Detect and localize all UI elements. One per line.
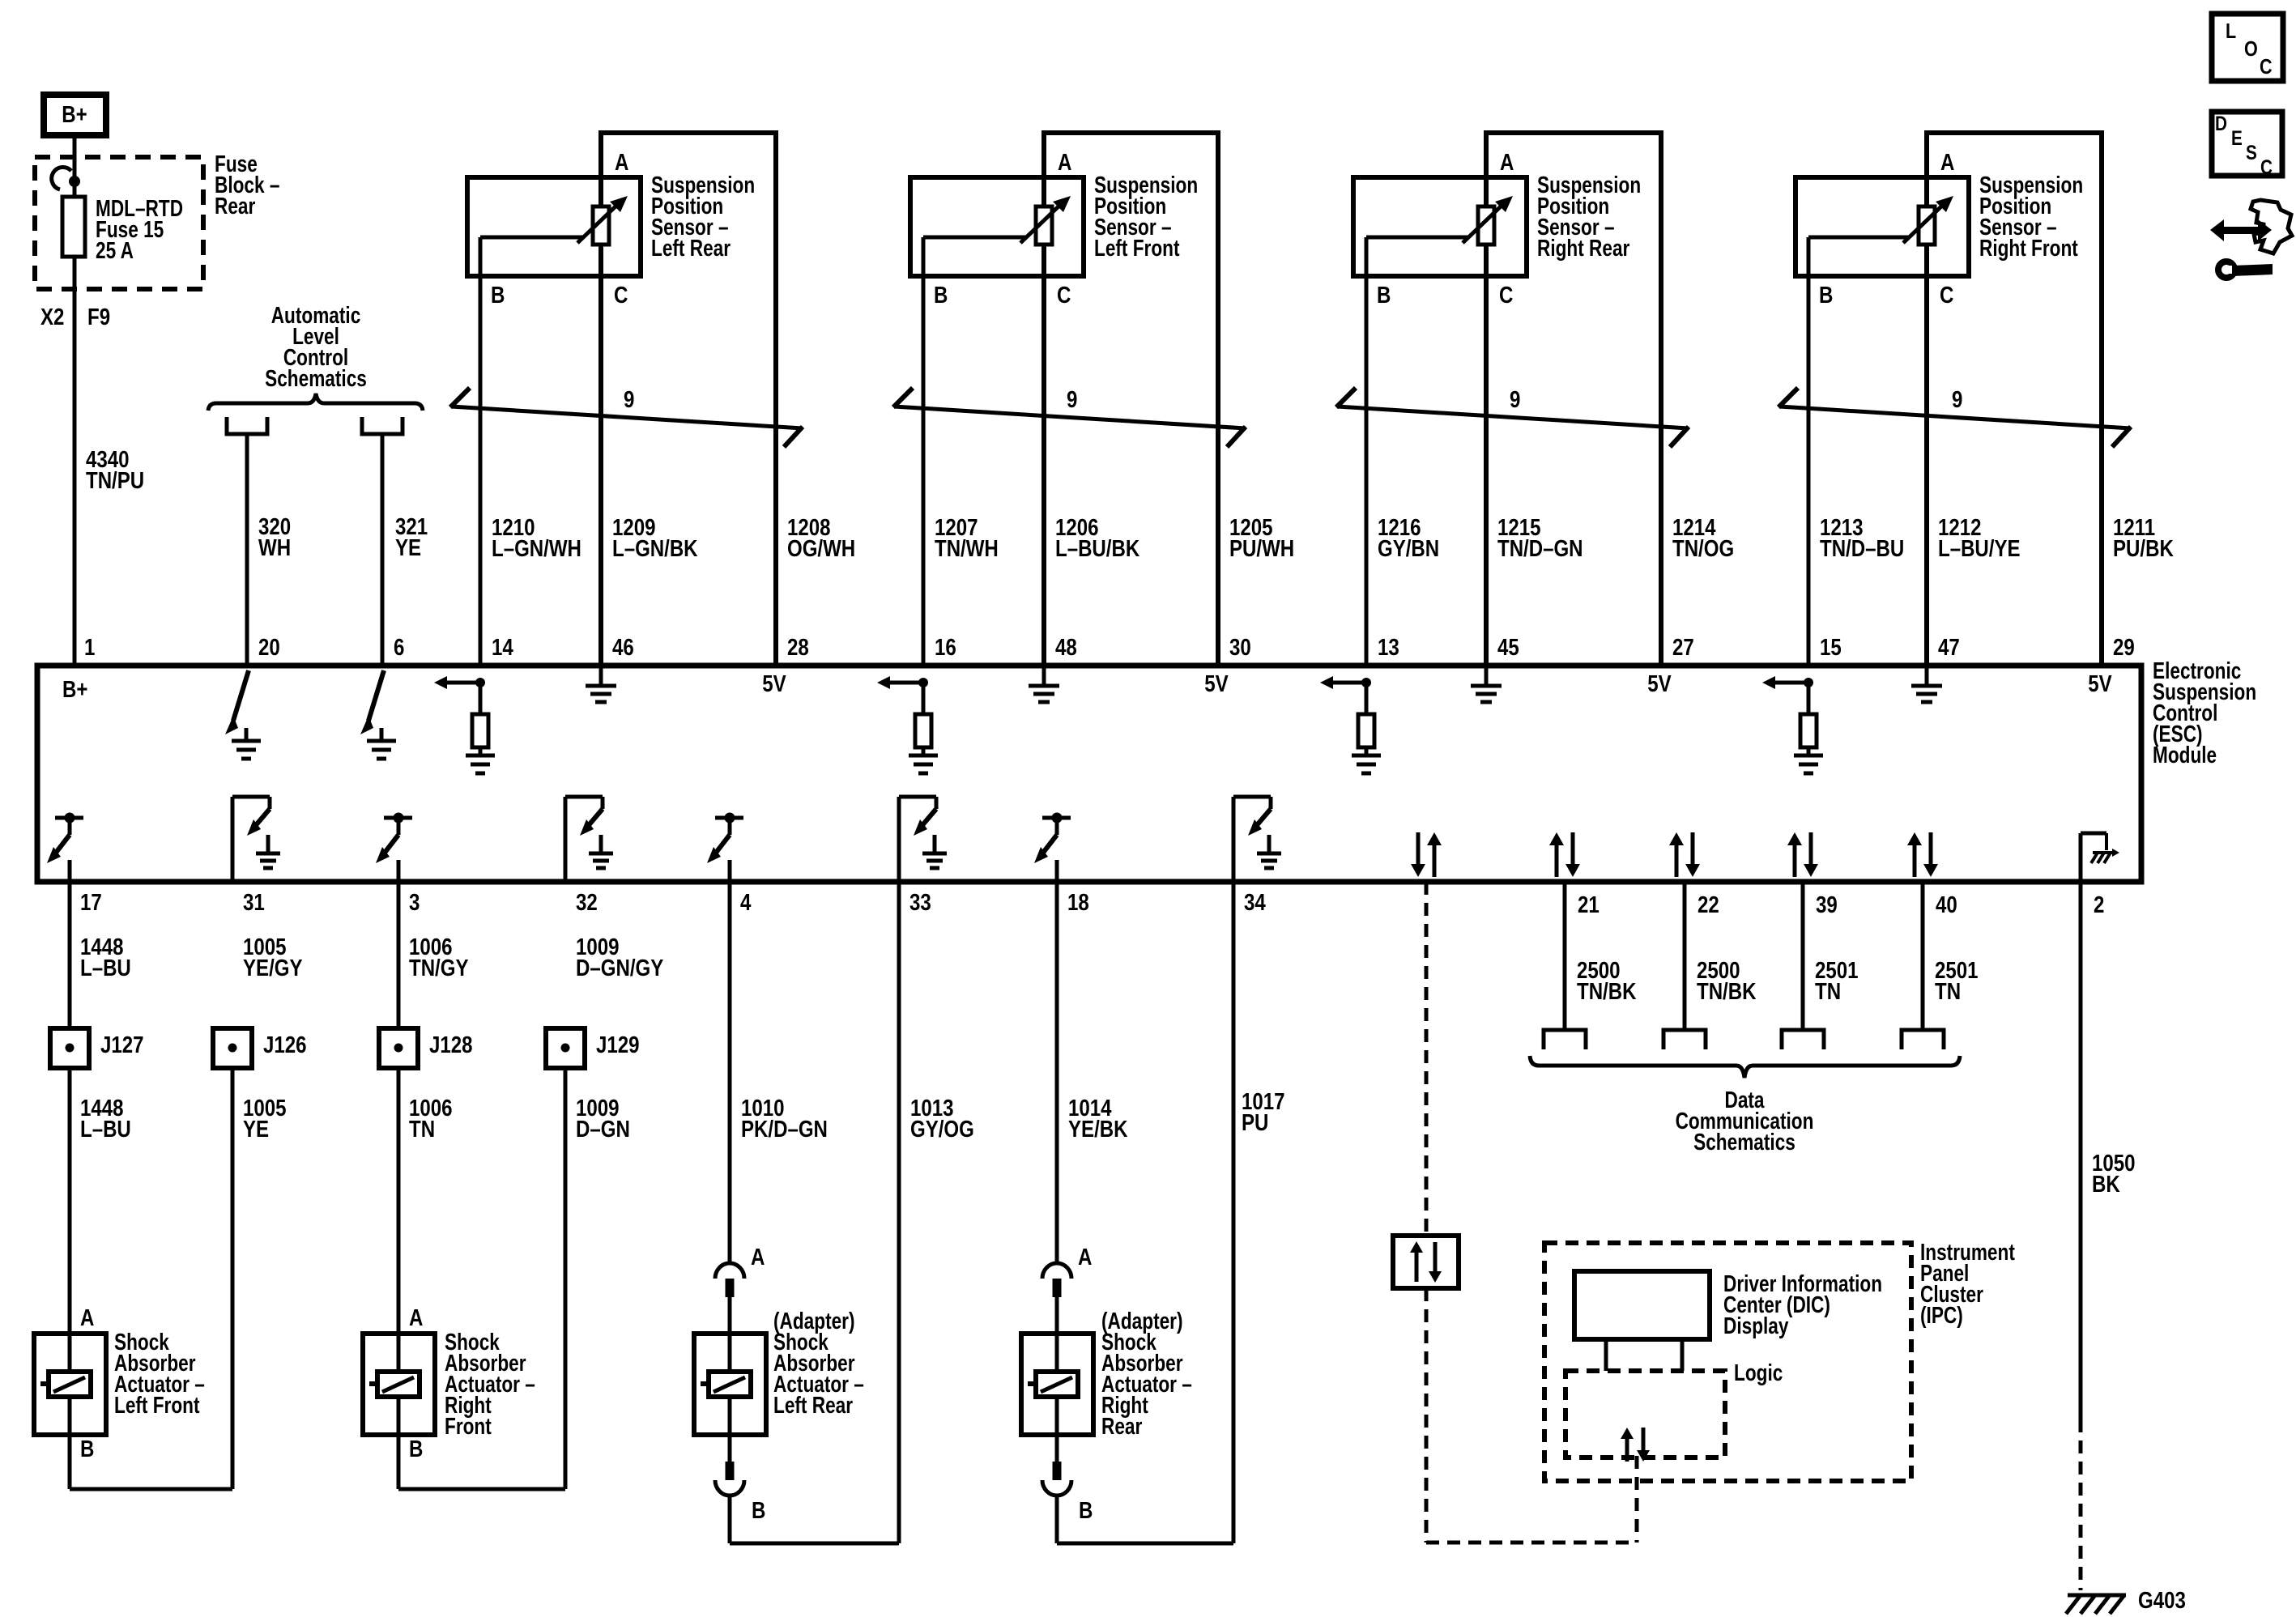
svg-text:D: D — [2215, 112, 2227, 134]
svg-text:L: L — [2226, 19, 2236, 43]
svg-text:31: 31 — [243, 889, 265, 916]
svg-text:320WH: 320WH — [258, 513, 291, 561]
svg-text:5V: 5V — [1647, 670, 1672, 697]
svg-text:A: A — [751, 1244, 765, 1270]
svg-text:B: B — [752, 1497, 765, 1524]
svg-text:1448L–BU: 1448L–BU — [80, 934, 131, 981]
svg-text:47: 47 — [1938, 634, 1960, 661]
svg-text:28: 28 — [787, 634, 809, 661]
svg-text:J129: J129 — [596, 1032, 640, 1058]
svg-text:4: 4 — [740, 889, 752, 916]
svg-text:G403: G403 — [2138, 1587, 2186, 1614]
svg-text:21: 21 — [1578, 891, 1600, 918]
svg-text:A: A — [615, 149, 628, 176]
svg-text:J127: J127 — [100, 1032, 144, 1058]
svg-text:39: 39 — [1816, 891, 1838, 918]
svg-text:1: 1 — [84, 634, 96, 661]
svg-text:46: 46 — [612, 634, 634, 661]
svg-text:B+: B+ — [62, 101, 87, 128]
svg-text:B: B — [934, 282, 948, 309]
svg-text:32: 32 — [576, 889, 598, 916]
svg-text:48: 48 — [1055, 634, 1077, 661]
svg-text:E: E — [2231, 126, 2243, 149]
svg-text:A: A — [1500, 149, 1514, 176]
svg-text:A: A — [80, 1304, 94, 1331]
svg-text:22: 22 — [1698, 891, 1719, 918]
svg-text:C: C — [1057, 282, 1071, 309]
svg-text:C: C — [1940, 282, 1953, 309]
svg-text:A: A — [1058, 149, 1071, 176]
svg-text:A: A — [1078, 1244, 1092, 1270]
svg-text:34: 34 — [1244, 889, 1266, 916]
svg-text:B: B — [1819, 282, 1833, 309]
svg-text:40: 40 — [1936, 891, 1957, 918]
svg-text:33: 33 — [909, 889, 931, 916]
svg-text:C: C — [1499, 282, 1513, 309]
svg-text:C: C — [2260, 155, 2273, 178]
svg-text:X2: X2 — [40, 304, 64, 330]
svg-text:O: O — [2244, 37, 2258, 61]
svg-text:(Adapter)ShockAbsorberActuator: (Adapter)ShockAbsorberActuator –Left Rea… — [773, 1307, 864, 1418]
svg-text:B: B — [491, 282, 505, 309]
svg-text:C: C — [614, 282, 628, 309]
svg-text:B: B — [1377, 282, 1391, 309]
svg-text:9: 9 — [1067, 386, 1077, 413]
svg-text:A: A — [409, 1304, 423, 1331]
svg-text:S: S — [2246, 141, 2257, 164]
svg-text:17: 17 — [80, 889, 102, 916]
svg-text:9: 9 — [1510, 386, 1520, 413]
svg-text:16: 16 — [935, 634, 956, 661]
svg-text:20: 20 — [258, 634, 280, 661]
svg-text:Logic: Logic — [1734, 1359, 1783, 1385]
svg-text:5V: 5V — [2088, 670, 2112, 697]
svg-text:3: 3 — [409, 889, 420, 916]
svg-text:14: 14 — [492, 634, 513, 661]
svg-text:6: 6 — [394, 634, 404, 661]
svg-text:9: 9 — [624, 386, 634, 413]
svg-text:29: 29 — [2113, 634, 2135, 661]
svg-text:B: B — [1079, 1497, 1093, 1524]
svg-text:13: 13 — [1378, 634, 1399, 661]
svg-text:A: A — [1940, 149, 1954, 176]
svg-text:45: 45 — [1497, 634, 1519, 661]
svg-text:27: 27 — [1672, 634, 1694, 661]
svg-text:J128: J128 — [429, 1032, 473, 1058]
svg-text:1448L–BU: 1448L–BU — [80, 1095, 131, 1143]
svg-text:C: C — [2260, 55, 2273, 79]
svg-text:9: 9 — [1952, 386, 1962, 413]
svg-text:B: B — [409, 1436, 423, 1462]
svg-text:F9: F9 — [87, 304, 110, 330]
svg-text:5V: 5V — [1204, 670, 1229, 697]
svg-text:15: 15 — [1820, 634, 1842, 661]
svg-text:2: 2 — [2094, 891, 2104, 918]
svg-text:18: 18 — [1067, 889, 1089, 916]
svg-text:J126: J126 — [263, 1032, 307, 1058]
svg-text:B+: B+ — [62, 676, 87, 703]
svg-text:30: 30 — [1229, 634, 1251, 661]
svg-text:5V: 5V — [762, 670, 786, 697]
svg-text:B: B — [80, 1436, 94, 1462]
